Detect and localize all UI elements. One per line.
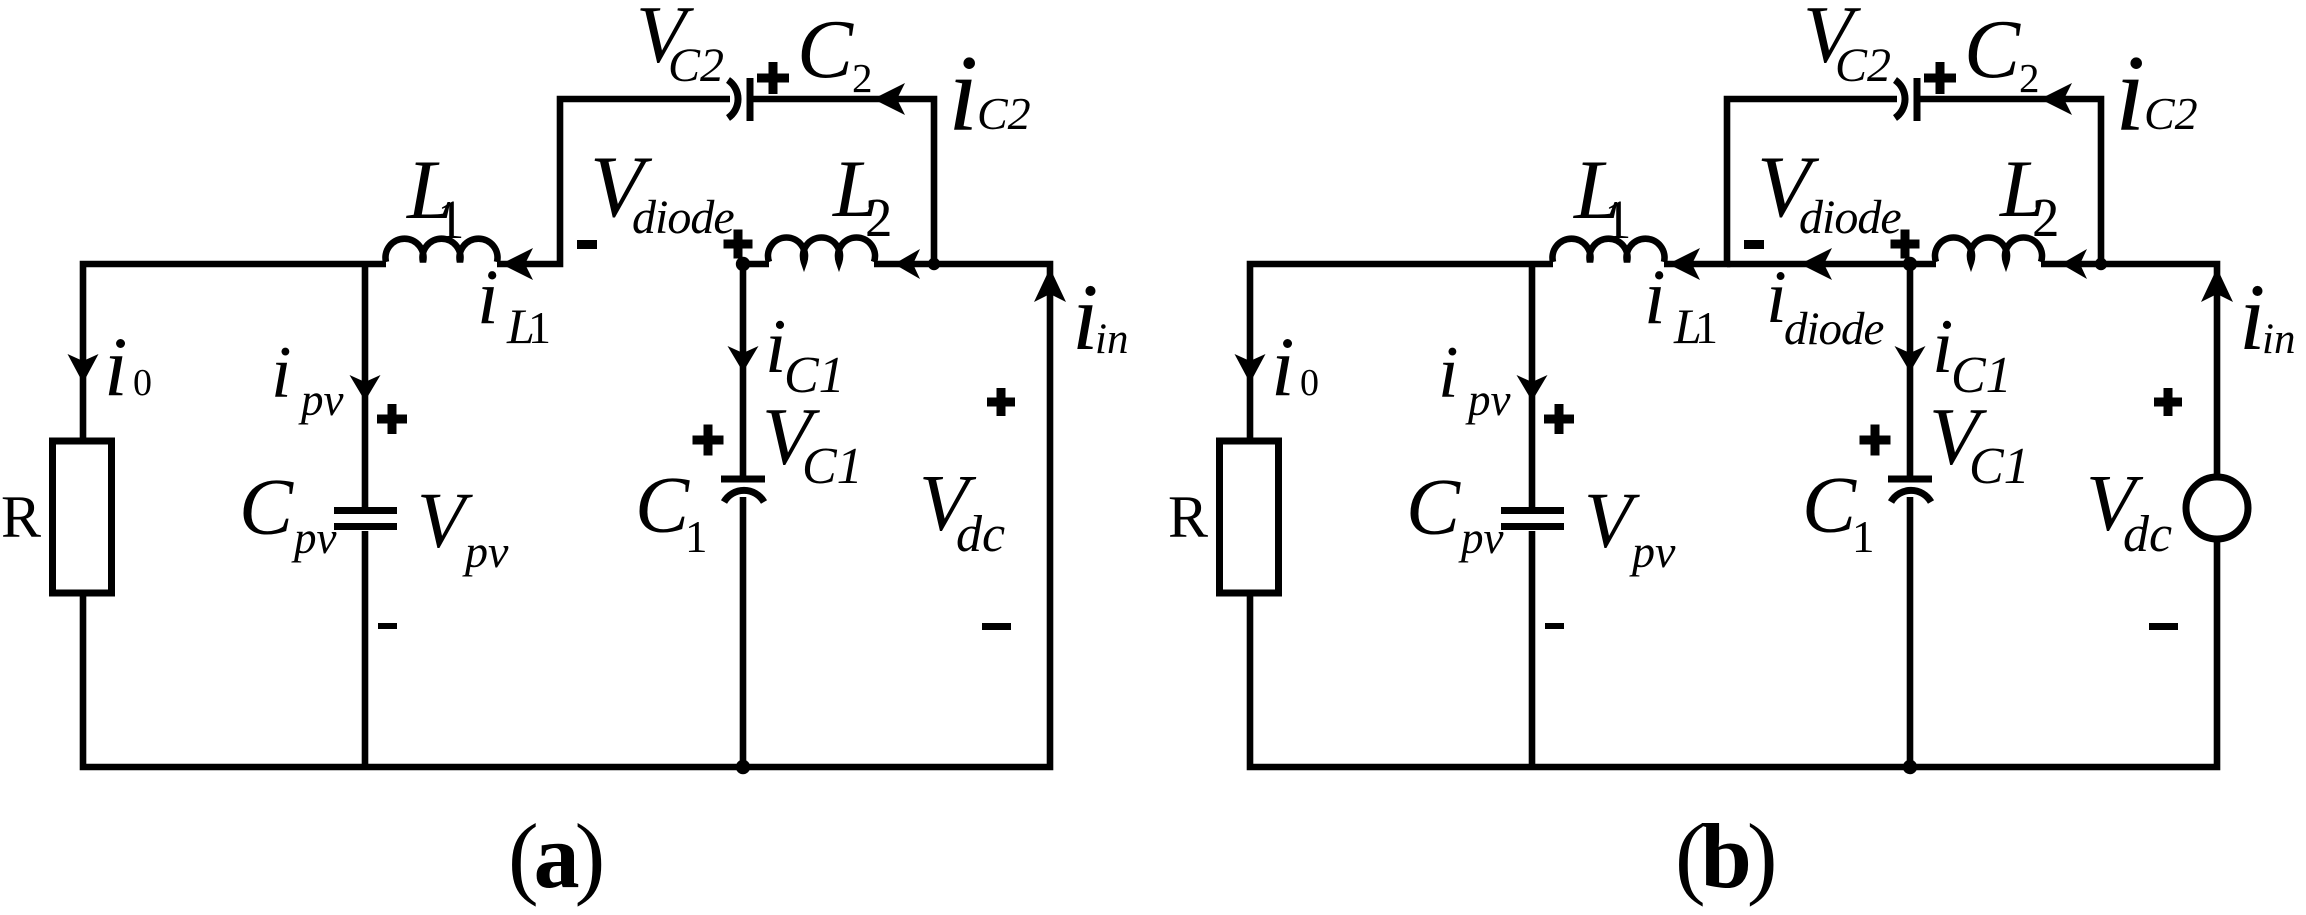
svg-text:C: C: [635, 460, 690, 550]
svg-text:1: 1: [685, 512, 708, 562]
svg-text:i: i: [1438, 332, 1459, 414]
svg-text:diode: diode: [632, 191, 734, 244]
svg-text:1: 1: [1695, 302, 1718, 353]
svg-text:C: C: [1406, 462, 1461, 552]
svg-text:C2: C2: [1835, 39, 1891, 92]
svg-text:(b): (b): [1675, 805, 1774, 907]
svg-text:i: i: [104, 320, 128, 414]
svg-text:i: i: [477, 253, 499, 340]
svg-text:1: 1: [528, 302, 551, 353]
svg-text:R: R: [1, 484, 41, 550]
svg-text:dc: dc: [956, 506, 1005, 563]
svg-text:pv: pv: [1458, 513, 1504, 563]
svg-text:pv: pv: [298, 375, 344, 425]
svg-text:pv: pv: [291, 513, 337, 563]
svg-text:R: R: [1168, 484, 1208, 550]
svg-text:C1: C1: [1951, 347, 2012, 404]
svg-text:1: 1: [1852, 512, 1875, 562]
svg-text:i: i: [271, 332, 292, 414]
svg-text:pv: pv: [462, 526, 509, 577]
svg-text:diode: diode: [1799, 191, 1901, 244]
svg-text:C2: C2: [668, 39, 724, 92]
svg-text:pv: pv: [1629, 526, 1676, 577]
svg-text:i: i: [2115, 33, 2145, 154]
svg-text:C1: C1: [784, 347, 845, 404]
svg-text:0: 0: [1300, 362, 1319, 404]
svg-text:2: 2: [852, 55, 873, 101]
svg-text:1: 1: [1604, 189, 1632, 250]
svg-text:2: 2: [2019, 55, 2040, 101]
svg-text:in: in: [2262, 316, 2295, 363]
svg-text:C: C: [1802, 460, 1857, 550]
svg-text:C2: C2: [977, 88, 1031, 139]
svg-text:C: C: [797, 3, 854, 96]
svg-text:1: 1: [437, 189, 465, 250]
svg-text:C2: C2: [2144, 88, 2198, 139]
svg-text:C: C: [239, 462, 294, 552]
svg-text:(a): (a): [508, 805, 602, 907]
svg-text:2: 2: [865, 187, 893, 248]
svg-text:2: 2: [2032, 187, 2060, 248]
svg-text:C: C: [1964, 3, 2021, 96]
svg-text:diode: diode: [1784, 303, 1884, 355]
svg-text:dc: dc: [2123, 506, 2172, 563]
svg-text:0: 0: [133, 362, 152, 404]
svg-text:C1: C1: [802, 438, 863, 495]
svg-text:i: i: [948, 33, 978, 154]
svg-text:pv: pv: [1465, 375, 1511, 425]
svg-text:C1: C1: [1969, 438, 2030, 495]
svg-text:in: in: [1095, 316, 1128, 363]
svg-text:i: i: [1271, 320, 1295, 414]
svg-text:i: i: [1644, 253, 1666, 340]
